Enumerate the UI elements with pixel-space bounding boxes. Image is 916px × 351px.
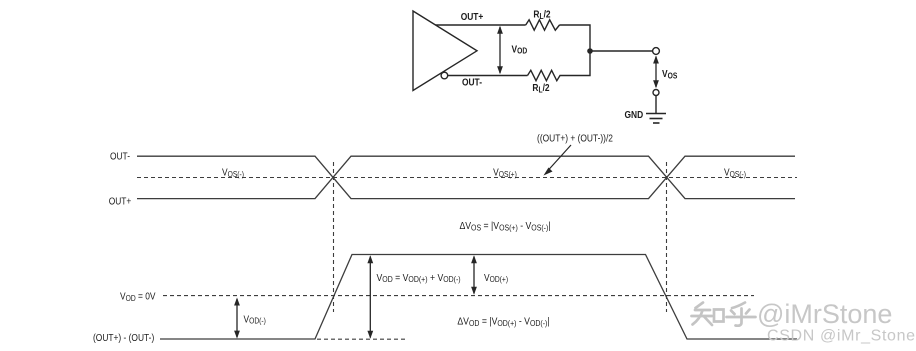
label VOS(+) middle xyxy=(493,167,517,179)
dashed center line VOS xyxy=(137,177,797,179)
arrow VOD total (tall) xyxy=(367,255,373,339)
label OUT- xyxy=(462,77,482,88)
svg-text:VOD(+): VOD(+) xyxy=(484,272,508,284)
label VOD = 0V xyxy=(120,291,156,303)
arrow VOS xyxy=(653,56,659,89)
label RL/2 top xyxy=(533,9,550,21)
vertical dashed line crossing 2 xyxy=(666,162,668,312)
junction dot xyxy=(587,48,593,54)
annotation ((OUT+) + (OUT-))/2 xyxy=(537,133,613,144)
svg-text:RL/2: RL/2 xyxy=(532,82,549,94)
label VOD = VOD(+) + VOD(-) xyxy=(377,272,462,284)
svg-text:GND: GND xyxy=(625,109,644,120)
svg-text:RL/2: RL/2 xyxy=(533,9,550,21)
arrow VOD xyxy=(497,26,503,74)
equation delta VOD xyxy=(457,316,549,328)
terminal circle bottom xyxy=(653,90,659,96)
wire OUT- xyxy=(448,75,528,77)
label (OUT+) - (OUT-) xyxy=(93,332,154,343)
svg-text:OUT-: OUT- xyxy=(462,77,482,88)
label VOD xyxy=(512,44,528,56)
svg-text:VOD = 0V: VOD = 0V xyxy=(120,291,156,303)
wire resistor bottom to junction xyxy=(560,51,591,76)
label OUT+ waveform xyxy=(109,196,132,207)
svg-text:@iMrStone: @iMrStone xyxy=(757,299,892,329)
svg-text:VOS(+): VOS(+) xyxy=(493,167,517,179)
arrow VOD(-) xyxy=(234,298,240,339)
svg-text:((OUT+) + (OUT-))/2: ((OUT+) + (OUT-))/2 xyxy=(537,133,613,144)
label VOD(-) xyxy=(244,314,266,326)
wire resistor top to junction xyxy=(559,25,590,51)
svg-text:VOS(-): VOS(-) xyxy=(222,167,244,179)
waveform trace (OUT+)-(OUT-) xyxy=(160,255,797,340)
inversion bubble xyxy=(441,72,448,79)
equation delta VOS xyxy=(459,220,550,232)
waveform trace OUT+ (starts low) xyxy=(137,156,795,198)
svg-text:ΔVOS = |VOS(+) - VOS(-)|: ΔVOS = |VOS(+) - VOS(-)| xyxy=(459,220,550,232)
svg-text:VOD: VOD xyxy=(512,44,528,56)
annotation pointer arrow xyxy=(544,145,572,176)
resistor RL/2 bottom xyxy=(528,70,561,80)
label RL/2 bottom xyxy=(532,82,549,94)
svg-text:VOS(-): VOS(-) xyxy=(724,167,746,179)
resistor RL/2 top xyxy=(526,20,560,30)
svg-text:VOD = VOD(+) + VOD(-): VOD = VOD(+) + VOD(-) xyxy=(377,272,462,284)
label VOS(-) left xyxy=(222,167,244,179)
op-amp driver xyxy=(413,11,477,91)
waveform trace OUT- (starts high) xyxy=(137,156,795,198)
label OUT- waveform xyxy=(110,151,130,162)
label VOS(-) right xyxy=(724,167,746,179)
arrow VOD(+) xyxy=(471,255,477,295)
terminal circle top xyxy=(653,48,660,55)
wire OUT+ xyxy=(436,24,526,26)
svg-text:OUT+: OUT+ xyxy=(461,11,484,22)
label OUT+ xyxy=(461,11,484,22)
dashed low level segment xyxy=(317,338,408,340)
wire to ground xyxy=(655,96,657,114)
svg-text:OUT-: OUT- xyxy=(110,151,130,162)
wire junction to terminal xyxy=(590,50,653,52)
watermark hanzi hu xyxy=(727,303,756,326)
dashed zero line VOD=0V xyxy=(163,295,754,297)
svg-text:VOD(-): VOD(-) xyxy=(244,314,266,326)
svg-text:CSDN @iMr_Stone: CSDN @iMr_Stone xyxy=(767,328,916,345)
ground symbol xyxy=(646,114,666,124)
svg-text:OUT+: OUT+ xyxy=(109,196,132,207)
label GND xyxy=(625,109,644,120)
svg-text:ΔVOD = |VOD(+) - VOD(-)|: ΔVOD = |VOD(+) - VOD(-)| xyxy=(457,316,549,328)
svg-text:(OUT+) - (OUT-): (OUT+) - (OUT-) xyxy=(93,332,154,343)
label VOS xyxy=(662,68,677,80)
label VOD(+) xyxy=(484,272,508,284)
vertical dashed line crossing 1 xyxy=(333,162,335,312)
watermark hanzi zhi xyxy=(692,303,724,326)
svg-text:VOS: VOS xyxy=(662,68,677,80)
